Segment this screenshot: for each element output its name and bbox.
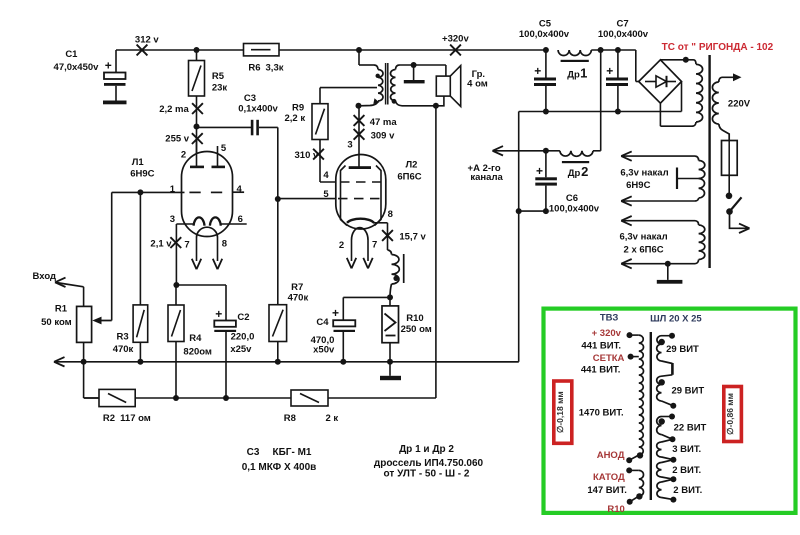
svg-text:5: 5 <box>323 189 329 200</box>
svg-text:0,1 МКФ Х 400в: 0,1 МКФ Х 400в <box>242 462 317 473</box>
choke Др2 <box>546 150 560 152</box>
tube Л1 cathode 2 pin 6 <box>210 217 221 225</box>
svg-text:0,1х400v: 0,1х400v <box>238 103 278 114</box>
heater arrow Л2 pin 2 <box>347 258 352 269</box>
test point X 2,1v <box>170 237 181 248</box>
wire R9 top ultralinear tap <box>320 87 377 89</box>
svg-text:6,3v накал: 6,3v накал <box>619 232 667 243</box>
svg-text:47 ma: 47 ma <box>370 117 398 128</box>
wire bridge AC bottom to HV winding <box>659 103 661 126</box>
svg-text:КАТОД: КАТОД <box>593 472 625 483</box>
svg-text:5: 5 <box>221 143 227 154</box>
wire input to R1 <box>83 287 85 307</box>
node anode primary <box>356 103 362 109</box>
node Др2 tap on rail <box>598 47 604 53</box>
resistor R3 <box>139 192 141 305</box>
green frame ТВЗ box <box>544 309 796 513</box>
test point X 309v <box>354 129 365 140</box>
svg-text:6П6С: 6П6С <box>397 172 421 183</box>
wire R10 bottom <box>389 343 391 362</box>
svg-text:2: 2 <box>581 164 588 179</box>
node secondary ground tap <box>411 62 417 68</box>
svg-text:1: 1 <box>580 66 587 81</box>
svg-text:∅-0,18 мм: ∅-0,18 мм <box>555 391 565 433</box>
svg-text:+: + <box>105 59 112 73</box>
svg-text:22 ВИТ: 22 ВИТ <box>674 422 707 433</box>
svg-text:канала: канала <box>470 172 503 183</box>
test point X +320v <box>450 45 461 56</box>
cathode feedback winding of ТВЗ <box>388 250 392 255</box>
node C2 on R2 line <box>223 395 229 401</box>
svg-text:ШЛ 20 Х 25: ШЛ 20 Х 25 <box>650 314 702 325</box>
svg-text:С3: С3 <box>247 447 260 458</box>
wire R2 to R8 <box>135 397 291 399</box>
svg-text:R6: R6 <box>248 62 260 73</box>
svg-text:+: + <box>536 164 543 178</box>
heater winding 1 bottom lead arrow <box>621 196 632 201</box>
tube Л2 envelope <box>336 155 386 230</box>
svg-text:100,0х400v: 100,0х400v <box>549 203 600 214</box>
ТВЗ secondary section 3 22 ВИТ <box>662 416 673 418</box>
wire C3 to Л2 grid node <box>277 127 279 199</box>
tube Л1 grid line pins 1 and 4 <box>112 191 185 193</box>
wire node to C4 <box>343 296 390 298</box>
svg-text:6Н9С: 6Н9С <box>130 169 154 180</box>
node cathode Л1 <box>173 282 179 288</box>
heater winding 6.3v for 6П6С <box>622 220 696 222</box>
ТВЗ secondary section 1 29 ВИТ <box>662 335 673 337</box>
tube Л1 anode 1 pin 2 <box>196 138 198 167</box>
svg-text:6Н9С: 6Н9С <box>626 180 650 191</box>
svg-text:47,0х450v: 47,0х450v <box>54 62 100 73</box>
ТВЗ secondary section 2 29 ВИТ <box>662 375 673 376</box>
svg-text:2 ВИТ.: 2 ВИТ. <box>672 465 701 476</box>
svg-text:255 v: 255 v <box>165 134 189 145</box>
svg-text:+: + <box>606 64 613 78</box>
svg-text:2,2 ma: 2,2 ma <box>159 104 189 115</box>
wire fuse to switch <box>728 175 730 196</box>
svg-text:441 ВИТ.: 441 ВИТ. <box>581 365 621 376</box>
wire top +320v rail left segment <box>116 49 244 51</box>
wire Др2 right to rail <box>600 50 602 151</box>
wire R7 bottom <box>277 342 279 362</box>
wire bridge plus to rail <box>636 81 639 83</box>
svg-text:С7: С7 <box>617 18 629 29</box>
svg-text:дроссель ИП4.750.060: дроссель ИП4.750.060 <box>374 458 484 469</box>
svg-text:R10: R10 <box>607 504 624 515</box>
heater winding 2 bottom lead arrow <box>621 259 632 264</box>
R1 wiper arrow <box>95 320 112 322</box>
mains transformer core <box>708 55 710 268</box>
node C5 ground <box>543 109 549 115</box>
svg-text:R3: R3 <box>117 332 129 343</box>
svg-text:147 ВИТ.: 147 ВИТ. <box>587 485 627 496</box>
svg-text:8: 8 <box>222 239 227 250</box>
svg-text:3: 3 <box>347 140 352 151</box>
svg-text:2,1 v: 2,1 v <box>150 238 172 249</box>
node C7 ground <box>615 109 621 115</box>
output transformer primary top wire <box>356 47 362 53</box>
svg-text:4: 4 <box>237 184 243 195</box>
wire Л2 cathode pin 8 <box>373 222 388 224</box>
red box wire diameter 0,18 мм <box>554 381 572 443</box>
capacitor C2 <box>214 321 236 327</box>
tube Л1 heater <box>197 227 218 237</box>
resistor R5 <box>196 50 198 61</box>
svg-text:100,0х400v: 100,0х400v <box>598 29 649 40</box>
svg-text:7: 7 <box>372 240 377 251</box>
output transformer secondary winding <box>396 65 400 70</box>
node cathode R10 C4 <box>387 294 393 300</box>
mains transformer 220V primary winding <box>719 77 735 82</box>
secondary ground bar <box>413 65 415 80</box>
node C3 branch <box>194 124 200 130</box>
svg-text:2,2 к: 2,2 к <box>284 113 305 124</box>
svg-text:2: 2 <box>339 240 344 251</box>
tube Л1 envelope <box>182 152 233 237</box>
red box wire diameter 0,86 мм <box>724 387 742 442</box>
svg-text:6: 6 <box>238 214 243 225</box>
wire R1 bottom to ground bus <box>83 342 85 361</box>
node Л2 grid <box>275 196 281 202</box>
svg-text:220V: 220V <box>728 99 751 110</box>
svg-text:4 ом: 4 ом <box>467 79 488 90</box>
ТВЗ primary winding <box>639 335 644 455</box>
svg-text:С2: С2 <box>237 312 249 323</box>
wire PSU ground to main ground bus <box>436 361 519 363</box>
svg-text:470к: 470к <box>113 344 134 355</box>
svg-text:250 ом: 250 ом <box>401 324 432 335</box>
wire cathode node to C2 <box>176 284 226 286</box>
svg-text:Л1: Л1 <box>132 157 145 168</box>
svg-text:АНОД: АНОД <box>597 450 625 461</box>
tube Л1 anode 2 pin 5 <box>217 146 219 167</box>
svg-text:С1: С1 <box>65 49 78 60</box>
ТВЗ screen tap СЕТКА <box>631 356 639 358</box>
heater ground symbol <box>667 264 669 280</box>
svg-text:7: 7 <box>184 240 189 251</box>
svg-text:23к: 23к <box>212 83 228 94</box>
output transformer primary winding <box>374 65 378 70</box>
resistor R9 <box>319 88 321 104</box>
PSU ground rail <box>519 111 682 113</box>
capacitor C4 <box>333 320 355 326</box>
secondary bottom wire <box>402 96 444 106</box>
ground bus arrow left <box>54 357 65 362</box>
wire bridge AC top to HV winding <box>660 59 693 61</box>
secondary top wire <box>400 64 446 66</box>
wire R9 bottom to screen grid pin 4 <box>319 140 321 183</box>
svg-text:2 х 6П6С: 2 х 6П6С <box>624 244 664 255</box>
svg-text:х25v: х25v <box>230 344 252 355</box>
svg-text:ТС от " РИГОНДА - 102: ТС от " РИГОНДА - 102 <box>662 42 774 53</box>
tube Л2 beam plates <box>341 166 348 226</box>
svg-text:2: 2 <box>181 150 186 161</box>
svg-text:8: 8 <box>388 209 393 220</box>
svg-text:3: 3 <box>170 214 175 225</box>
heater winding 1 center tap <box>677 178 699 180</box>
heater winding 1 top lead arrow <box>621 151 632 156</box>
heater winding 6.3v for 6Н9С <box>622 155 696 157</box>
svg-text:29 ВИТ: 29 ВИТ <box>671 385 704 396</box>
node R10 ground <box>387 359 393 365</box>
svg-text:R10: R10 <box>406 313 423 324</box>
node R4 on R2 line <box>173 395 179 401</box>
heater arrow Л2 pin 7 <box>363 258 368 269</box>
tube Л2 anode pin 3 <box>358 106 360 168</box>
resistor R2 <box>84 397 99 399</box>
svg-text:R2: R2 <box>103 413 115 424</box>
potentiometer R1 <box>77 306 92 342</box>
svg-text:R4: R4 <box>189 333 202 344</box>
svg-text:312 v: 312 v <box>135 35 159 46</box>
node R3 ground <box>137 359 143 365</box>
svg-text:ТВЗ: ТВЗ <box>600 312 619 323</box>
tube Л2 heater <box>352 228 369 240</box>
resistor R10 <box>389 297 391 306</box>
svg-text:820ом: 820ом <box>183 347 212 358</box>
ТВЗ secondary section 6 2 ВИТ <box>662 479 674 482</box>
svg-text:1470 ВИТ.: 1470 ВИТ. <box>579 408 624 419</box>
ТВЗ secondary section 5 2 ВИТ <box>662 460 674 463</box>
tube Л1 cathode 1 pin 3 <box>194 217 205 225</box>
svg-text:220,0: 220,0 <box>231 332 255 343</box>
fuse <box>722 141 738 176</box>
svg-text:3,3к: 3,3к <box>266 62 284 73</box>
ground for C1 <box>103 101 127 105</box>
bridge rectifier <box>639 60 682 103</box>
ТВЗ cathode winding 147 ВИТ <box>629 469 639 471</box>
bridge diode symbol <box>645 81 656 83</box>
choke Др1 <box>558 50 591 56</box>
capacitor C3 <box>197 126 252 128</box>
svg-text:1: 1 <box>170 184 176 195</box>
svg-text:КБГ- М1: КБГ- М1 <box>273 447 312 458</box>
output transformer core <box>385 63 387 105</box>
svg-text:Др: Др <box>568 168 581 179</box>
node speaker bottom feedback <box>433 103 439 109</box>
svg-text:2 ВИТ.: 2 ВИТ. <box>673 485 702 496</box>
svg-text:+: + <box>332 306 339 320</box>
node R3 top <box>137 189 143 195</box>
primary bottom lead <box>360 101 379 106</box>
resistor R7 <box>277 199 279 305</box>
node R7 ground <box>275 359 281 365</box>
wire switch to mains arrow <box>730 212 740 229</box>
capacitor C7 <box>615 47 621 53</box>
capacitor C5 <box>543 47 549 53</box>
svg-text:СЕТКА: СЕТКА <box>593 353 625 364</box>
svg-text:+ 320v: + 320v <box>592 328 622 339</box>
svg-text:R7: R7 <box>291 282 303 293</box>
resistor R6 <box>244 44 280 56</box>
svg-text:С5: С5 <box>539 18 552 29</box>
svg-text:Др 1 и Др 2: Др 1 и Др 2 <box>399 444 454 455</box>
chassis ground symbol <box>389 362 391 376</box>
feedback wire from speaker <box>435 106 437 398</box>
ground bus wire <box>54 361 519 363</box>
test point X 312v <box>137 45 148 56</box>
svg-text:+320v: +320v <box>442 33 469 44</box>
wire R8 to feedback vertical <box>328 397 436 399</box>
PSU ground vertical <box>518 112 520 362</box>
heater arrow pin 8 <box>213 259 218 270</box>
wire top rail middle segment <box>279 49 546 51</box>
resistor R4 <box>175 285 177 305</box>
node Др2 C6 <box>543 148 549 154</box>
ТВЗ primary top terminal +320v <box>630 334 639 336</box>
capacitor C6 <box>545 151 547 178</box>
node R1 ground <box>81 359 87 365</box>
wire C6 ground link <box>543 208 549 214</box>
svg-text:+: + <box>534 64 541 78</box>
svg-text:100,0х400v: 100,0х400v <box>519 29 570 40</box>
speaker Гр 4 ом <box>436 76 450 96</box>
svg-text:6,3v накал: 6,3v накал <box>620 167 668 178</box>
wire grid node to Л2 pin 5 <box>278 198 337 200</box>
tube Л2 cathode <box>347 219 374 223</box>
svg-text:R8: R8 <box>284 413 296 424</box>
node heater ground <box>665 261 671 267</box>
svg-text:15,7 v: 15,7 v <box>399 232 426 243</box>
svg-text:+: + <box>215 307 222 321</box>
220V top lead arrow <box>733 73 742 81</box>
heater arrow pin 7 <box>192 259 197 270</box>
ТВЗ core <box>650 332 652 500</box>
svg-text:2 к: 2 к <box>325 413 338 424</box>
wire R4 bottom to R2 line <box>175 342 177 399</box>
svg-text:С4: С4 <box>316 317 329 328</box>
svg-text:470к: 470к <box>288 293 309 304</box>
test point X 15,7v <box>382 230 393 241</box>
svg-text:С6: С6 <box>566 193 578 204</box>
tube Л2 screen grid dashes <box>340 181 381 183</box>
wire top rail right segment <box>591 49 636 51</box>
tube Л2 control grid dashes <box>338 198 383 200</box>
wire bridge minus to ground rail <box>681 82 683 112</box>
svg-text:х50v: х50v <box>313 344 335 355</box>
svg-text:от УЛТ - 50 - Ш - 2: от УЛТ - 50 - Ш - 2 <box>384 469 470 480</box>
ТВЗ primary anode end <box>629 455 639 460</box>
switch contact moving <box>726 208 733 215</box>
svg-text:4: 4 <box>323 170 329 181</box>
svg-text:117 ом: 117 ом <box>120 413 151 424</box>
resistor R8 <box>291 390 328 406</box>
svg-text:Вход: Вход <box>33 271 57 282</box>
node R5 top <box>194 47 200 53</box>
svg-text:441 ВИТ.: 441 ВИТ. <box>581 341 621 352</box>
svg-text:R1: R1 <box>55 303 68 314</box>
svg-text:3 ВИТ.: 3 ВИТ. <box>672 444 701 455</box>
ТВЗ secondary section 4 3 ВИТ <box>662 439 673 442</box>
wire R1 node down to R2 line <box>83 362 85 398</box>
wire Л1 cathode to R4/C2 node <box>175 224 177 285</box>
svg-text:310 v: 310 v <box>295 150 319 161</box>
wire R3 bottom <box>139 342 141 362</box>
svg-text:Л2: Л2 <box>406 160 418 171</box>
svg-text:309 v: 309 v <box>371 130 395 141</box>
test point X 310v <box>313 149 324 160</box>
heater winding 2 top lead arrow <box>621 216 632 221</box>
svg-text:R5: R5 <box>212 71 225 82</box>
wire R5 to anode <box>196 96 198 167</box>
switch contact fixed <box>726 193 733 200</box>
svg-text:50 ком: 50 ком <box>41 317 72 328</box>
switch lever <box>730 197 742 211</box>
svg-text:∅-0,86 мм: ∅-0,86 мм <box>725 393 735 435</box>
node C4 ground <box>340 359 346 365</box>
test point X 2,2ma <box>192 103 203 114</box>
wire second channel arrow <box>494 150 546 152</box>
capacitor C1 <box>115 50 117 73</box>
mains transformer HV winding <box>694 60 697 65</box>
test point X 255v <box>192 133 203 144</box>
svg-text:29 ВИТ: 29 ВИТ <box>666 344 699 355</box>
wire wiper to Л1 grid <box>111 192 113 320</box>
svg-text:Др: Др <box>567 70 580 81</box>
test point X 47ma <box>354 115 365 126</box>
